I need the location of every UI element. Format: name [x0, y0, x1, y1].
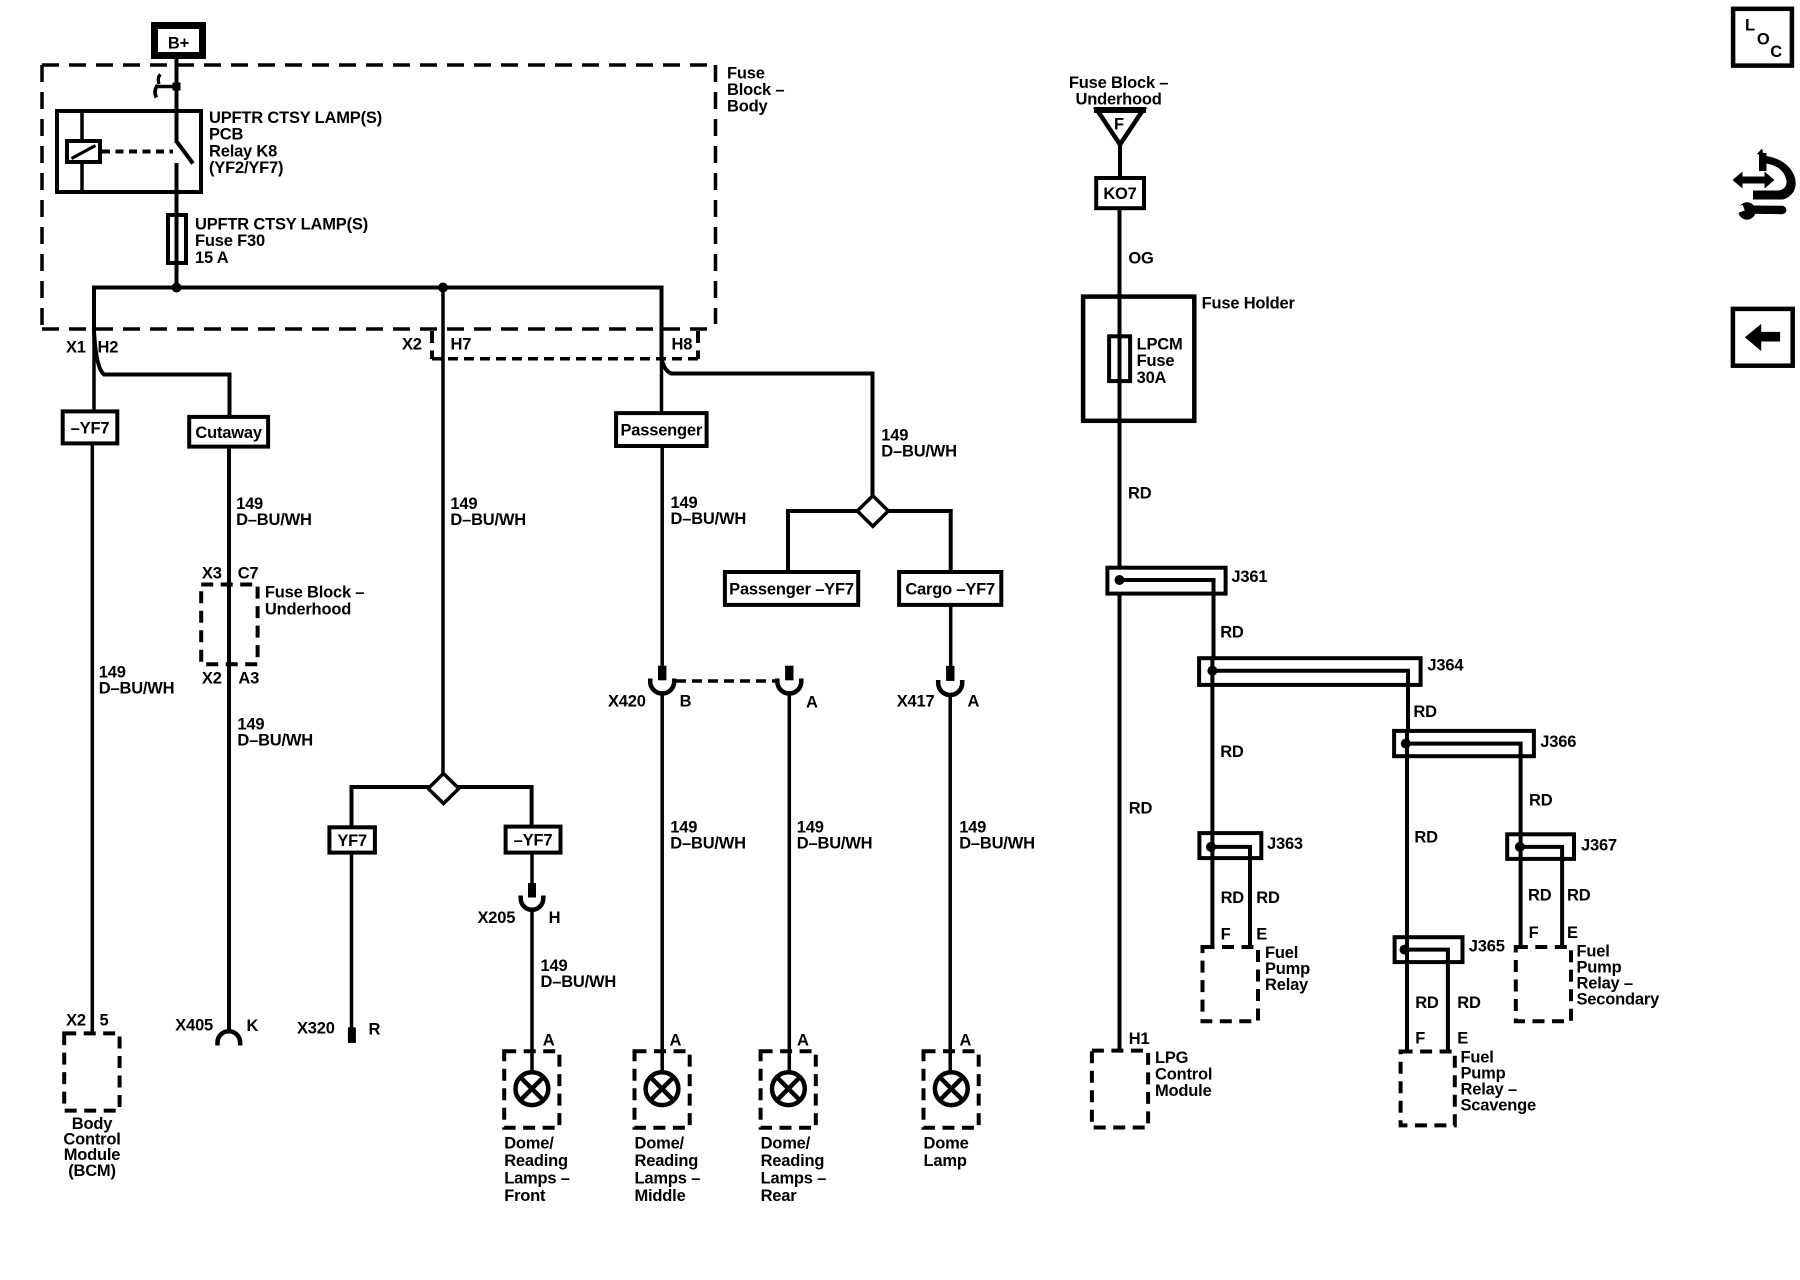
- label RD (fuse holder to J361): [1128, 485, 1152, 503]
- splice J366: [1394, 731, 1534, 756]
- svg-text:A: A: [797, 1031, 809, 1049]
- svg-text:Fuse Block –: Fuse Block –: [1069, 74, 1168, 92]
- svg-text:D–BU/WH: D–BU/WH: [99, 680, 175, 698]
- label J366: [1540, 733, 1576, 751]
- svg-text:F: F: [1114, 116, 1124, 134]
- connector box Cargo -YF7: [899, 572, 1001, 605]
- wire -YF7 to X205: [530, 853, 534, 884]
- svg-text:RD: RD: [1528, 887, 1552, 905]
- svg-text:F: F: [1529, 924, 1539, 942]
- wire relay to fuse F30: [175, 192, 179, 215]
- label 149 D-BU/WH (Passenger branch): [671, 494, 747, 528]
- svg-text:Module: Module: [1155, 1082, 1212, 1100]
- svg-text:E: E: [1567, 924, 1578, 942]
- splice J363: [1199, 833, 1261, 858]
- LPCM fuse 30A: [1109, 297, 1130, 421]
- label A (X420): [806, 693, 818, 711]
- label H7: [451, 336, 472, 354]
- svg-text:Scavenge: Scavenge: [1461, 1097, 1536, 1115]
- label RD (J367 E): [1567, 887, 1591, 905]
- fuse block underhood triangle F: [1094, 110, 1146, 145]
- dome lamp dashed box: [924, 1051, 979, 1128]
- svg-text:J365: J365: [1469, 937, 1505, 955]
- svg-text:Lamps –: Lamps –: [635, 1170, 701, 1188]
- label E (scavenge relay): [1457, 1029, 1468, 1047]
- svg-text:D–BU/WH: D–BU/WH: [671, 510, 747, 528]
- wire J364 to J363: [1210, 685, 1214, 833]
- label Dome/Reading Lamps - Middle: [635, 1135, 701, 1206]
- label Fuel Pump Relay: [1265, 944, 1310, 994]
- svg-text:C7: C7: [238, 564, 259, 582]
- svg-text:H2: H2: [98, 339, 119, 357]
- connector box Cutaway: [189, 417, 268, 447]
- svg-text:A: A: [670, 1031, 682, 1049]
- svg-text:Dome/: Dome/: [504, 1135, 554, 1153]
- svg-text:Cargo –YF7: Cargo –YF7: [905, 581, 995, 599]
- label R: [369, 1020, 381, 1038]
- wire J365 E to scavenge relay: [1446, 962, 1450, 1051]
- svg-text:X2: X2: [402, 336, 422, 354]
- svg-text:J366: J366: [1540, 733, 1576, 751]
- svg-text:D–BU/WH: D–BU/WH: [797, 834, 873, 852]
- junction dot at H7 drop: [438, 283, 448, 293]
- svg-text:Rear: Rear: [761, 1187, 798, 1205]
- label J363: [1267, 835, 1303, 853]
- svg-text:Relay: Relay: [1265, 976, 1309, 994]
- label A (X417): [968, 693, 980, 711]
- svg-text:Dome/: Dome/: [635, 1135, 685, 1153]
- svg-text:Secondary: Secondary: [1577, 991, 1661, 1009]
- lamp symbol middle: [646, 1072, 679, 1105]
- label E (secondary relay): [1567, 924, 1578, 942]
- label B (X420): [680, 693, 692, 711]
- splice diamond YF7: [428, 774, 459, 804]
- svg-text:Block –: Block –: [727, 81, 784, 99]
- lamp symbol front: [516, 1072, 549, 1105]
- wire fuse to bus: [175, 263, 179, 288]
- LOC icon box: [1733, 9, 1792, 66]
- wire J366 to J365: [1405, 756, 1409, 937]
- label X205: [478, 909, 516, 927]
- svg-text:R: R: [369, 1020, 381, 1038]
- splice J365: [1395, 937, 1463, 962]
- label 149 D-BU/WH (middle lamp): [670, 818, 746, 852]
- wire H8 to Passenger: [660, 358, 664, 413]
- label 149 D-BU/WH (rear lamp): [797, 818, 873, 852]
- lamp symbol rear: [772, 1072, 805, 1105]
- label X2 (BCM pins): [66, 1012, 86, 1030]
- label Fuse Holder: [1202, 294, 1296, 312]
- svg-text:RD: RD: [1413, 703, 1437, 721]
- connector X420 pin A: [777, 666, 801, 694]
- label Dome/Reading Lamps - Rear: [761, 1135, 827, 1206]
- svg-text:15 A: 15 A: [195, 249, 229, 267]
- svg-text:H1: H1: [1129, 1030, 1150, 1048]
- wire X1-H2 to -YF7: [92, 288, 96, 412]
- svg-text:D–BU/WH: D–BU/WH: [237, 732, 313, 750]
- label Fuel Pump Relay - Scavenge: [1461, 1049, 1536, 1115]
- LPG control module dashed box: [1092, 1051, 1148, 1128]
- svg-text:Cutaway: Cutaway: [195, 424, 262, 442]
- svg-text:RD: RD: [1220, 624, 1244, 642]
- connector box -YF7 (front): [506, 827, 561, 853]
- svg-text:Dome: Dome: [924, 1135, 969, 1153]
- wire diamond to YF7: [352, 787, 430, 827]
- wire X417 to dome lamp: [948, 695, 952, 1073]
- label RD (J366 to J367): [1529, 791, 1553, 809]
- svg-text:E: E: [1256, 925, 1267, 943]
- svg-text:Underhood: Underhood: [1076, 91, 1162, 109]
- label 149 D-BU/WH (dome lamp): [959, 818, 1035, 852]
- svg-text:J364: J364: [1427, 657, 1464, 675]
- connector box KO7: [1096, 178, 1144, 208]
- label H1: [1129, 1030, 1150, 1048]
- svg-text:–YF7: –YF7: [514, 832, 553, 850]
- wire -YF7 to BCM: [91, 443, 95, 1033]
- wire X205 to front lamp: [530, 910, 534, 1073]
- svg-text:Reading: Reading: [761, 1152, 825, 1170]
- svg-text:Fuse: Fuse: [1137, 352, 1175, 370]
- label RD (J367 F): [1528, 887, 1552, 905]
- dome/reading lamps front dashed box: [504, 1051, 559, 1128]
- label RD (J364 to J363): [1220, 743, 1244, 761]
- wire J365 F to scavenge relay: [1405, 962, 1409, 1051]
- svg-text:E: E: [1457, 1029, 1468, 1047]
- label E (fuel pump relay): [1256, 925, 1267, 943]
- label Fuse Block - Underhood (small): [265, 584, 364, 619]
- wire fuse holder to J361: [1118, 421, 1122, 568]
- label X417: [897, 692, 935, 710]
- label F (scavenge relay): [1415, 1029, 1425, 1047]
- back arrow icon box: [1733, 309, 1793, 366]
- label X420: [608, 693, 646, 711]
- svg-text:X205: X205: [478, 909, 516, 927]
- svg-text:X2: X2: [66, 1012, 86, 1030]
- label LPG Control Module: [1155, 1049, 1212, 1100]
- fuse block underhood pass-through dashed box: [201, 585, 257, 665]
- dashed link X420 B to A: [676, 679, 777, 683]
- label 149 D-BU/WH (front lamp): [541, 957, 617, 991]
- svg-text:Fuse Block –: Fuse Block –: [265, 584, 364, 602]
- svg-text:YF7: YF7: [337, 832, 367, 850]
- relay K8 switch contact: [177, 142, 194, 192]
- splice J364: [1199, 658, 1421, 685]
- junction dot at fuse drop: [172, 283, 182, 293]
- relay K8 coil: [67, 111, 100, 192]
- svg-text:UPFTR CTSY LAMP(S): UPFTR CTSY LAMP(S): [195, 216, 368, 234]
- svg-text:RD: RD: [1129, 800, 1153, 818]
- svg-text:A: A: [806, 693, 818, 711]
- svg-text:RD: RD: [1414, 829, 1438, 847]
- svg-text:Fuse F30: Fuse F30: [195, 232, 265, 250]
- dome/reading lamps middle dashed box: [635, 1051, 690, 1128]
- svg-text:B: B: [680, 693, 692, 711]
- wire H8 branch to cargo diamond: [662, 357, 873, 496]
- svg-text:LPCM: LPCM: [1137, 336, 1183, 354]
- label A3: [238, 669, 259, 687]
- svg-text:X3: X3: [202, 564, 222, 582]
- svg-text:RD: RD: [1128, 485, 1152, 503]
- svg-text:L: L: [1745, 17, 1755, 35]
- terminator X320: [348, 1027, 356, 1043]
- wire J361 to J364: [1212, 594, 1216, 659]
- wire Cargo-YF7 to X417: [949, 605, 953, 667]
- wire J364 to J366: [1406, 685, 1410, 731]
- svg-text:UPFTR CTSY LAMP(S): UPFTR CTSY LAMP(S): [209, 109, 382, 127]
- reprogram icon (arrows and wrench): [1733, 149, 1796, 220]
- label X3: [202, 564, 222, 582]
- lamp symbol dome: [935, 1072, 968, 1105]
- connector box Passenger -YF7: [725, 572, 858, 605]
- wire KO7 to fuse holder: [1118, 208, 1122, 296]
- label J365: [1469, 937, 1505, 955]
- label J361: [1231, 568, 1267, 586]
- power symbol B+: [155, 26, 203, 56]
- svg-text:D–BU/WH: D–BU/WH: [450, 511, 526, 529]
- relay K8 box: [57, 111, 201, 192]
- label 149 D-BU/WH (Cutaway lower): [237, 716, 313, 750]
- svg-text:D–BU/WH: D–BU/WH: [959, 834, 1035, 852]
- wire H7 to diamond: [441, 288, 445, 774]
- splice diamond cargo: [857, 496, 888, 527]
- svg-text:LPG: LPG: [1155, 1049, 1188, 1067]
- label Dome/Reading Lamps - Front: [504, 1135, 570, 1206]
- svg-text:H7: H7: [451, 336, 472, 354]
- label X405: [175, 1016, 213, 1034]
- svg-text:D–BU/WH: D–BU/WH: [541, 973, 617, 991]
- svg-text:30A: 30A: [1137, 369, 1167, 387]
- label H8: [672, 336, 693, 354]
- label OG: [1128, 250, 1153, 268]
- svg-text:X2: X2: [202, 669, 222, 687]
- label 149 D-BU/WH (BCM branch): [99, 664, 175, 698]
- label F (secondary relay): [1529, 924, 1539, 942]
- label J364: [1427, 657, 1464, 675]
- svg-text:Body: Body: [727, 98, 768, 116]
- svg-text:H8: H8: [672, 336, 693, 354]
- label RD (J364 to J366): [1413, 703, 1437, 721]
- label X1: [66, 339, 86, 357]
- svg-text:X405: X405: [175, 1016, 213, 1034]
- connector box YF7: [329, 827, 375, 852]
- svg-text:J361: J361: [1231, 568, 1267, 586]
- splice J361: [1107, 568, 1225, 594]
- label A (middle lamp pin): [670, 1031, 682, 1049]
- svg-text:(YF2/YF7): (YF2/YF7): [209, 159, 283, 177]
- label RD (J361 to J364): [1220, 624, 1244, 642]
- label X320: [297, 1020, 335, 1038]
- svg-text:Control: Control: [1155, 1066, 1212, 1084]
- connector strip X2 dotted box: [432, 331, 698, 359]
- svg-text:A: A: [960, 1031, 972, 1049]
- label K: [247, 1017, 259, 1035]
- svg-text:X417: X417: [897, 692, 935, 710]
- svg-text:Fuse Holder: Fuse Holder: [1202, 294, 1296, 312]
- svg-text:J367: J367: [1581, 837, 1617, 855]
- fuel pump relay secondary dashed box: [1516, 947, 1571, 1021]
- splice J367: [1507, 834, 1574, 859]
- svg-text:–YF7: –YF7: [71, 420, 110, 438]
- label A (rear lamp pin): [797, 1031, 809, 1049]
- svg-text:KO7: KO7: [1103, 185, 1136, 203]
- bus wire inside fuse block: [94, 288, 662, 359]
- label J367: [1581, 837, 1617, 855]
- connector X205: [521, 883, 544, 910]
- svg-text:5: 5: [100, 1012, 109, 1030]
- label fuse F30: [195, 216, 368, 267]
- label H2: [98, 339, 119, 357]
- svg-text:RD: RD: [1567, 887, 1591, 905]
- label X2: [402, 336, 422, 354]
- svg-text:D–BU/WH: D–BU/WH: [670, 834, 746, 852]
- label LPCM Fuse 30A: [1137, 336, 1183, 387]
- svg-text:Passenger –YF7: Passenger –YF7: [729, 581, 854, 599]
- wire YF7 to X320: [350, 853, 354, 1028]
- wire diamond to Passenger-YF7: [788, 511, 858, 572]
- label 149 D-BU/WH (Cutaway upper): [236, 495, 312, 529]
- svg-text:RD: RD: [1221, 889, 1245, 907]
- svg-text:RD: RD: [1256, 889, 1280, 907]
- label RD (J366 to J365): [1414, 829, 1438, 847]
- svg-text:RD: RD: [1457, 994, 1481, 1012]
- label Dome Lamp: [924, 1135, 969, 1171]
- svg-text:RD: RD: [1415, 994, 1439, 1012]
- svg-text:Underhood: Underhood: [265, 600, 351, 618]
- fuel pump relay scavenge dashed box: [1401, 1052, 1455, 1126]
- connector X420 pin B: [650, 666, 674, 694]
- wire Passenger to X420: [660, 446, 664, 667]
- fuse holder box: [1083, 297, 1194, 421]
- connector X405 half: [218, 1031, 241, 1045]
- label RD (J363 F): [1221, 889, 1245, 907]
- label Fuse Block - Body: [727, 65, 784, 116]
- svg-text:Middle: Middle: [635, 1187, 686, 1205]
- svg-text:Lamps –: Lamps –: [504, 1170, 570, 1188]
- svg-text:Reading: Reading: [635, 1152, 699, 1170]
- fuse F30: [168, 215, 186, 263]
- label A (front lamp pin): [543, 1031, 555, 1049]
- label 149 D-BU/WH (H7 branch): [450, 495, 526, 529]
- svg-text:Front: Front: [504, 1187, 546, 1205]
- connector X417 pin A: [938, 666, 962, 695]
- label C7: [238, 564, 259, 582]
- svg-text:J363: J363: [1267, 835, 1303, 853]
- svg-text:F: F: [1221, 925, 1231, 943]
- label F (fuel pump relay): [1221, 925, 1231, 943]
- svg-text:D–BU/WH: D–BU/WH: [236, 511, 312, 529]
- svg-text:A3: A3: [238, 669, 259, 687]
- svg-text:Relay K8: Relay K8: [209, 142, 277, 160]
- fuel pump relay dashed box: [1203, 947, 1259, 1021]
- label RD (J365 E): [1457, 994, 1481, 1012]
- svg-text:O: O: [1757, 31, 1770, 49]
- svg-text:C: C: [1770, 43, 1782, 61]
- connector box Passenger: [616, 413, 707, 446]
- svg-text:Reading: Reading: [504, 1152, 568, 1170]
- svg-text:K: K: [247, 1017, 259, 1035]
- label RD (J361 to LPG): [1129, 800, 1153, 818]
- wire J366 to J367: [1519, 756, 1523, 834]
- svg-text:Lamp: Lamp: [924, 1152, 967, 1170]
- svg-text:H: H: [549, 909, 561, 927]
- label RD (J365 F): [1415, 994, 1439, 1012]
- svg-text:X420: X420: [608, 693, 646, 711]
- label Fuse Block - Underhood (top right): [1069, 74, 1168, 109]
- label X2 (A3 row): [202, 669, 222, 687]
- connector box -YF7: [63, 411, 118, 443]
- wire X420 A to rear lamp: [788, 694, 792, 1073]
- svg-text:B+: B+: [168, 35, 189, 53]
- label 5 (BCM pin): [100, 1012, 109, 1030]
- wire J367 E to secondary relay: [1560, 859, 1564, 947]
- svg-text:Lamps –: Lamps –: [761, 1170, 827, 1188]
- clip hook symbol on B+ feed: [155, 75, 181, 98]
- svg-text:X1: X1: [66, 339, 86, 357]
- wire X420 B to middle lamp: [660, 694, 664, 1073]
- wire diamond to -YF7: [458, 787, 532, 827]
- body control module dashed box: [64, 1033, 119, 1110]
- wire Cutaway to X405: [227, 447, 231, 1031]
- fuse block body dashed box: [42, 65, 717, 329]
- wire J367 F to secondary relay: [1519, 859, 1523, 947]
- relay K8 coil-contact dashed link: [102, 150, 173, 154]
- svg-text:OG: OG: [1128, 250, 1153, 268]
- svg-text:RD: RD: [1529, 791, 1553, 809]
- wire B+ to relay switch: [175, 59, 179, 143]
- wire J363 F to fuel pump relay: [1210, 858, 1214, 947]
- label Fuel Pump Relay - Secondary: [1577, 943, 1661, 1009]
- svg-text:F: F: [1415, 1029, 1425, 1047]
- svg-text:RD: RD: [1220, 743, 1244, 761]
- svg-text:Fuse: Fuse: [727, 65, 765, 83]
- wire H2 branch to Cutaway: [94, 331, 230, 417]
- label RD (J363 E): [1256, 889, 1280, 907]
- label A (dome lamp pin): [960, 1031, 972, 1049]
- svg-text:(BCM): (BCM): [68, 1162, 116, 1180]
- wire triangle to KO7: [1118, 145, 1122, 179]
- wire J363 E to fuel pump relay: [1248, 858, 1252, 947]
- wire J361 to LPG module: [1118, 594, 1122, 1052]
- svg-text:Dome/: Dome/: [761, 1135, 811, 1153]
- label H: [549, 909, 561, 927]
- svg-text:PCB: PCB: [209, 126, 244, 144]
- label relay K8: [209, 109, 382, 177]
- dome/reading lamps rear dashed box: [761, 1051, 816, 1128]
- svg-text:Passenger: Passenger: [620, 422, 702, 440]
- svg-text:A: A: [968, 693, 980, 711]
- label Body Control Module (BCM): [63, 1115, 120, 1180]
- svg-text:D–BU/WH: D–BU/WH: [881, 443, 957, 461]
- label 149 D-BU/WH (cargo diamond feed): [881, 427, 957, 461]
- svg-text:X320: X320: [297, 1020, 335, 1038]
- wire diamond to Cargo-YF7: [888, 511, 951, 572]
- svg-text:A: A: [543, 1031, 555, 1049]
